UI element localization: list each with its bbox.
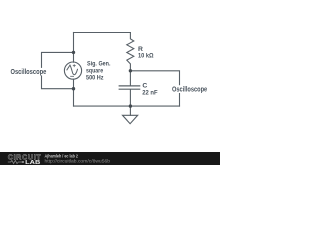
svg-text:500 Hz: 500 Hz xyxy=(86,75,104,82)
svg-text:Sig. Gen.: Sig. Gen. xyxy=(87,60,111,67)
svg-text:Oscilloscope: Oscilloscope xyxy=(11,69,47,76)
svg-text:square: square xyxy=(86,68,103,75)
svg-text:Oscilloscope: Oscilloscope xyxy=(172,86,207,93)
svg-text:LAB: LAB xyxy=(25,160,40,165)
svg-text:22 nF: 22 nF xyxy=(142,89,157,96)
svg-text:10 kΩ: 10 kΩ xyxy=(138,53,154,60)
svg-text:http://circuitlab.com/c/8wu56b: http://circuitlab.com/c/8wu56b xyxy=(45,159,111,164)
